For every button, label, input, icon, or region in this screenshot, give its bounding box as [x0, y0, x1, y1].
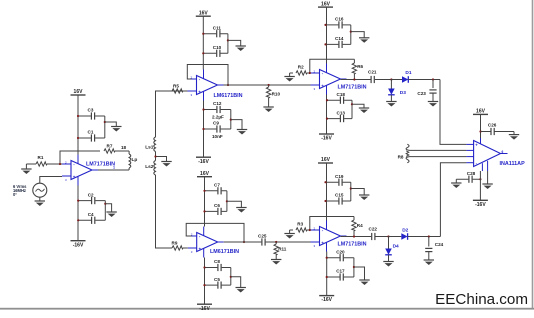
svg-text:+: +	[321, 241, 324, 246]
ground at R1	[25, 164, 27, 169]
capacitor C3	[78, 115, 105, 117]
wire feedback U2	[187, 65, 228, 86]
svg-text:C15: C15	[335, 193, 344, 198]
capacitor C13	[327, 118, 352, 120]
capacitor C2	[78, 200, 105, 202]
resistor R2	[290, 72, 293, 74]
svg-text:-16V: -16V	[475, 202, 486, 208]
ground at C7 C6	[227, 201, 242, 207]
svg-text:C10: C10	[213, 45, 222, 50]
page border right	[532, 0, 534, 310]
svg-text:10nF: 10nF	[212, 134, 223, 139]
capacitor C24	[428, 235, 430, 237]
svg-text:C6: C6	[214, 203, 220, 208]
capacitor C7	[205, 190, 227, 192]
svg-text:R11: R11	[278, 246, 287, 251]
svg-text:D4: D4	[393, 244, 399, 250]
svg-text:C18: C18	[337, 92, 346, 97]
svg-text:C16: C16	[335, 17, 344, 22]
capacitor C25	[261, 238, 265, 245]
capacitor C20	[327, 257, 354, 259]
wire feedback U1	[60, 151, 100, 164]
diode D3	[390, 78, 392, 80]
svg-text:Lp: Lp	[132, 157, 138, 163]
svg-text:R5: R5	[173, 83, 179, 88]
capacitor C15	[326, 200, 351, 202]
ground at D3	[386, 101, 396, 103]
svg-text:-16V: -16V	[321, 136, 332, 142]
svg-text:C7: C7	[214, 183, 220, 188]
svg-text:EEChina.com: EEChina.com	[435, 291, 528, 308]
resistor R3	[290, 229, 293, 231]
wire feedback U3	[310, 59, 355, 73]
svg-text:LM7171BIN: LM7171BIN	[86, 162, 115, 168]
diode D1	[391, 79, 402, 81]
svg-text:C28: C28	[467, 171, 476, 176]
resistor R5	[156, 90, 173, 92]
ground at V1	[35, 200, 45, 202]
capacitor C1	[78, 137, 105, 139]
capacitor C16	[326, 24, 351, 26]
svg-text:R2: R2	[298, 65, 304, 70]
svg-text:16V: 16V	[200, 171, 210, 177]
svg-text:0°: 0°	[13, 192, 17, 197]
wire secondary top	[156, 91, 192, 137]
page border bottom	[0, 308, 534, 310]
svg-text:-16V: -16V	[199, 306, 210, 312]
ground at C3 C1	[105, 122, 117, 127]
wire rectifier top to INA in+	[440, 80, 466, 145]
svg-text:C3: C3	[88, 108, 94, 113]
svg-text:LM7171BIN: LM7171BIN	[338, 242, 367, 248]
svg-text:INA111AP: INA111AP	[500, 161, 526, 167]
resistor R1	[26, 163, 36, 165]
svg-text:C26: C26	[488, 123, 497, 128]
svg-text:Ls2: Ls2	[145, 164, 154, 170]
svg-text:16V: 16V	[199, 10, 209, 16]
svg-text:LM6171BIN: LM6171BIN	[210, 249, 239, 255]
power +16V U5	[318, 162, 333, 164]
svg-text:LM6171BIN: LM6171BIN	[214, 93, 243, 99]
power -16V U2	[203, 101, 205, 158]
svg-text:R1: R1	[38, 155, 44, 160]
svg-text:C21: C21	[368, 69, 377, 74]
wire feedback U5	[310, 217, 354, 231]
svg-text:C4: C4	[88, 212, 94, 217]
capacitor C8	[205, 267, 231, 269]
ground at C24	[424, 259, 434, 261]
ground at R2	[289, 73, 291, 77]
svg-text:18: 18	[121, 145, 127, 150]
svg-text:D3: D3	[400, 90, 406, 96]
ground at C28	[455, 179, 457, 183]
power -16V U3	[326, 95, 328, 135]
capacitor C11	[203, 33, 228, 35]
wire U2 output	[224, 84, 315, 86]
svg-text:16V: 16V	[74, 89, 84, 95]
svg-text:C13: C13	[337, 110, 346, 115]
capacitor C22	[371, 233, 375, 240]
ground at C16 C14	[351, 32, 364, 38]
ground at R10	[263, 106, 273, 108]
svg-text:Ls1: Ls1	[145, 145, 154, 151]
svg-text:C12: C12	[213, 101, 222, 106]
svg-text:R6: R6	[357, 64, 363, 69]
svg-text:R4: R4	[357, 223, 363, 228]
svg-text:6: 6	[502, 150, 504, 154]
ground at C8 C5	[231, 277, 241, 288]
capacitor C4	[78, 219, 105, 221]
svg-text:16V: 16V	[321, 1, 331, 7]
wire RG bottom	[410, 156, 467, 158]
capacitor C21	[371, 76, 375, 83]
svg-text:C14: C14	[335, 36, 344, 41]
inductor Lp	[128, 151, 130, 154]
svg-text:C5: C5	[214, 277, 220, 282]
svg-text:C19: C19	[335, 174, 344, 179]
ground at C12 C9	[231, 120, 242, 130]
svg-text:1: 1	[113, 166, 115, 170]
svg-text:-16V: -16V	[73, 242, 84, 248]
svg-text:+: +	[199, 247, 202, 252]
op-amp U4 LM6171BIN	[197, 233, 218, 252]
wire U5 output	[341, 236, 389, 238]
capacitor C5	[205, 284, 231, 286]
capacitor C10	[203, 52, 228, 54]
svg-text:C9: C9	[213, 121, 219, 126]
capacitor C26	[479, 130, 481, 132]
power +16V rail V1 section	[71, 94, 86, 96]
svg-text:C25: C25	[258, 233, 267, 238]
power -16V U4	[204, 258, 206, 305]
ground at C18 C13	[352, 104, 364, 108]
ground at C20 C17	[354, 267, 365, 280]
svg-text:C22: C22	[369, 226, 378, 231]
ground at C11 C10	[228, 40, 241, 46]
wire feedback U4	[186, 223, 244, 242]
ground at INA pin	[487, 171, 489, 184]
resistor R10	[268, 84, 270, 86]
diode D4	[387, 235, 389, 237]
svg-text:-16V: -16V	[321, 297, 332, 303]
svg-text:16V: 16V	[476, 109, 486, 115]
source V1 6Vrms 16MHz	[40, 177, 62, 184]
wire U1 output	[98, 169, 129, 171]
capacitor C28	[456, 178, 480, 180]
ground at C19 C15	[351, 189, 364, 196]
ground at C26	[513, 132, 515, 135]
op-amp U3 LM7171BIN	[320, 70, 341, 89]
svg-text:R8: R8	[398, 155, 404, 160]
wire U4 output	[224, 241, 315, 243]
svg-text:-16V: -16V	[198, 159, 209, 165]
resistor R8	[406, 144, 409, 150]
ground at D4	[383, 261, 393, 263]
ground at R11	[271, 259, 281, 261]
wire RG top	[410, 149, 467, 151]
svg-text:C1: C1	[88, 130, 94, 135]
wire U3 output	[341, 79, 392, 81]
ground at C23	[428, 101, 438, 103]
svg-text:+: +	[73, 175, 76, 180]
svg-text:R10: R10	[272, 91, 281, 96]
power +16V U3	[318, 6, 333, 8]
svg-text:D2: D2	[402, 227, 408, 233]
resistor R7	[104, 149, 115, 153]
power -16V U5	[326, 252, 328, 296]
svg-text:+: +	[321, 84, 324, 89]
op-amp U1 LM7171BIN	[71, 161, 92, 180]
ground at R3	[289, 230, 291, 234]
op-amp U2 LM6171BIN	[197, 76, 218, 95]
capacitor C12	[204, 109, 231, 111]
power -16V INA	[479, 171, 481, 200]
svg-text:R9: R9	[172, 240, 178, 245]
svg-text:C2: C2	[88, 192, 94, 197]
svg-text:16V: 16V	[321, 157, 331, 163]
ground at C2 C4	[105, 204, 111, 212]
diode D2	[389, 236, 402, 238]
resistor R6	[352, 63, 356, 74]
capacitor C19	[326, 181, 351, 183]
svg-text:C24: C24	[435, 242, 444, 247]
svg-text:R7: R7	[107, 143, 113, 148]
power +16V U2	[196, 15, 211, 17]
svg-text:D1: D1	[405, 70, 411, 76]
wire secondary bottom	[156, 175, 167, 248]
capacitor C23	[432, 78, 434, 80]
svg-text:C11: C11	[213, 25, 222, 30]
svg-text:C17: C17	[336, 269, 345, 274]
svg-text:R3: R3	[297, 222, 303, 227]
wire rectifier bottom to INA in-	[440, 163, 466, 237]
resistor R9	[166, 247, 172, 249]
capacitor C14	[326, 43, 351, 45]
op-amp U5 LM7171BIN	[320, 227, 341, 246]
resistor R11	[275, 241, 277, 243]
inductor Ls2	[154, 161, 156, 176]
power +16V U4	[197, 176, 212, 178]
instrumentation amp U6 INA111AP	[474, 141, 501, 167]
power -16V rail V1 section	[77, 186, 79, 241]
svg-text:LM7171BIN: LM7171BIN	[338, 85, 367, 91]
capacitor C9	[204, 128, 231, 130]
ground center tap	[156, 157, 167, 162]
svg-text:C8: C8	[214, 259, 220, 264]
resistor R4	[352, 220, 356, 231]
capacitor C6	[205, 210, 227, 212]
capacitor C18	[327, 99, 352, 101]
svg-text:+: +	[198, 90, 201, 95]
inductor Ls1	[154, 137, 156, 152]
capacitor C17	[327, 276, 354, 278]
svg-text:C23: C23	[417, 91, 426, 96]
svg-text:C20: C20	[336, 249, 345, 254]
power +16V INA	[473, 113, 488, 115]
svg-text:2.2µF: 2.2µF	[212, 115, 224, 120]
